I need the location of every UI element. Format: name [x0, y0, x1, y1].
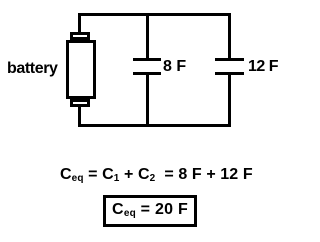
wire capacitor C1 bottom lead — [146, 75, 149, 127]
battery top terminal — [70, 32, 90, 40]
wire top rail — [78, 13, 231, 16]
wire capacitor C1 top lead — [146, 13, 149, 58]
result text Ceq = 20 F — [112, 201, 188, 219]
label C2 value 12 F — [248, 58, 278, 76]
wire bottom rail — [78, 124, 231, 127]
capacitor C2 top plate — [215, 58, 244, 61]
wire capacitor C2 bottom lead — [228, 75, 231, 127]
capacitor C1 bottom plate — [133, 72, 161, 75]
result box — [103, 195, 197, 227]
label C1 value 8 F — [163, 58, 186, 76]
battery B1 body — [66, 40, 96, 99]
label battery — [7, 60, 58, 78]
wire battery bottom lead — [78, 107, 81, 127]
equation Ceq = C1 + C2 = 8 F + 12 F — [60, 166, 253, 184]
wire capacitor C2 top lead — [228, 13, 231, 58]
capacitor C1 top plate — [133, 58, 161, 61]
capacitor C2 bottom plate — [215, 72, 244, 75]
wire battery top lead — [78, 13, 81, 32]
battery bottom terminal — [70, 99, 90, 107]
